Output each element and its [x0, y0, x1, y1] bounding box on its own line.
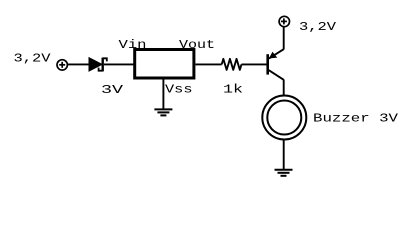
svg-text:Buzzer 3V: Buzzer 3V — [313, 112, 399, 126]
wire emitter to supply — [283, 27, 285, 50]
ground (regulator) — [154, 109, 172, 115]
wire diode cathode to regulator Vin — [104, 63, 134, 65]
transistor Q1 (PNP) — [268, 49, 284, 80]
svg-text:3,2V: 3,2V — [299, 20, 337, 34]
schottky diode D1 — [89, 58, 107, 72]
wire terminal to diode anode — [68, 63, 90, 65]
power terminal P2 (+) right — [279, 16, 289, 26]
ground (buzzer) — [275, 170, 293, 176]
wire buzzer to ground — [283, 140, 285, 170]
svg-text:Vin: Vin — [119, 38, 147, 52]
svg-text:Vss: Vss — [165, 82, 193, 96]
buzzer LS1 — [262, 96, 306, 140]
resistor R1 — [222, 59, 242, 70]
wire collector to buzzer — [283, 80, 285, 96]
wire Vss to ground — [162, 79, 164, 109]
regulator U1 body — [135, 50, 194, 79]
power terminal P1 (+) left — [57, 60, 67, 70]
wire resistor to base — [242, 63, 267, 65]
wire Vout to resistor — [196, 63, 222, 65]
svg-text:3V: 3V — [101, 83, 124, 97]
svg-text:Vout: Vout — [179, 38, 215, 52]
svg-text:1k: 1k — [223, 83, 243, 97]
svg-text:3,2V: 3,2V — [14, 52, 52, 66]
